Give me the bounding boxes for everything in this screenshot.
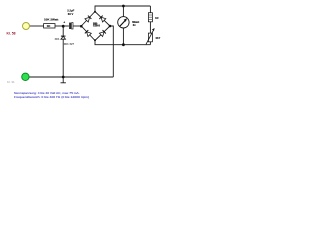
diode D1 upper-left [85,16,92,22]
zener diode ZD1 [55,36,75,46]
svg-text:50mA: 50mA [132,21,139,24]
wire zener branch upper [62,26,64,36]
wire right branch middle [149,22,151,33]
node bridge left [80,25,83,28]
caption line 2 [14,95,89,99]
wire meter top lead [122,6,124,17]
resistor R1 [44,17,59,28]
svg-text:Kl. 58: Kl. 58 [7,32,16,36]
diode D3 lower-left [85,30,92,36]
node junction zener [62,25,65,28]
diode D4 lower-right [99,30,105,37]
svg-text:Kl. 31: Kl. 31 [7,80,15,84]
svg-text:4K7: 4K7 [155,36,161,40]
terminal Kl.31 ground [22,73,29,80]
svg-text:10K 2Watt: 10K 2Watt [44,17,58,21]
svg-text:+: + [63,20,65,24]
node meter top [122,5,125,8]
wire DC plus rail [95,6,150,12]
node bridge right [109,25,112,28]
wire top rail input [30,25,44,27]
wire zener branch lower [62,39,64,77]
diode D2 upper-right [99,16,105,23]
node label Kl. 58 [7,32,16,36]
wire meter bottom lead [122,28,124,45]
wire resistor to junction [55,25,69,27]
node bridge bottom [94,39,96,41]
caption line 1 [14,91,80,95]
bridge rectifier B1 frame [81,12,110,41]
node junction ground rail [62,76,65,79]
wire capacitor to bridge left [73,25,81,27]
svg-text:C1500: C1500 [93,25,101,28]
wire right branch bottom [149,42,151,45]
resistor R2 1R [148,13,158,22]
svg-text:Frequenzbereich: 0 bis 400 Hz: Frequenzbereich: 0 bis 400 Hz (0 bis 120… [14,95,89,99]
wire right branch top [149,6,151,13]
wire AC return [110,26,113,77]
wire bottom rail [29,76,113,78]
node label Kl. 31 [7,80,15,84]
ground [62,77,64,83]
bridge value label [93,22,97,24]
node bridge top [94,11,96,13]
svg-text:Nennspannung: 4 bis 40 Volt: Nennspannung: 4 bis 40 Volt AC, max 75 m… [14,91,80,95]
meter M1 50mA [118,17,140,28]
svg-text:1R: 1R [155,16,159,20]
wire DC minus rail [95,41,150,45]
potentiometer P1 4K7 [146,28,161,44]
capacitor C1 2.2uF [63,9,74,29]
node meter bottom [122,43,125,46]
terminal Kl.58 input [23,23,30,30]
